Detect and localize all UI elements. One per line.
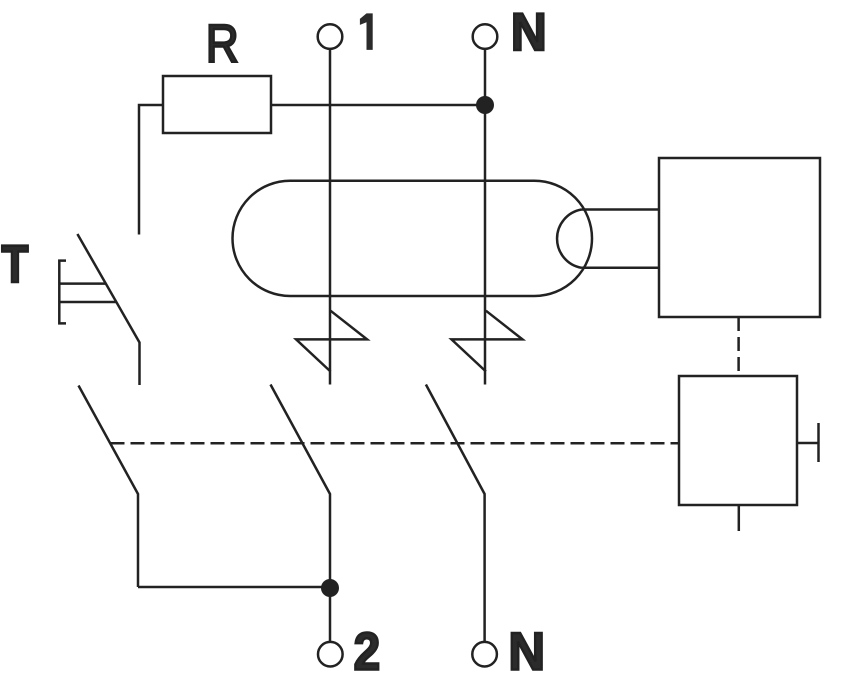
svg-text:T: T bbox=[1, 235, 28, 294]
test button contact blade bbox=[77, 234, 139, 385]
test button lower link bbox=[59, 301, 116, 304]
trip coil bottom stub bbox=[738, 505, 741, 531]
terminal 2 circle bbox=[318, 642, 343, 667]
svg-text:2: 2 bbox=[354, 621, 381, 681]
trip arrow on line N bbox=[452, 311, 523, 372]
sensing coil arc bbox=[557, 210, 581, 268]
terminal N bottom circle bbox=[472, 642, 497, 667]
junction dot on 2 bbox=[321, 579, 339, 597]
pole N contact blade bbox=[426, 385, 485, 642]
trip arrow on line 1 bbox=[296, 311, 367, 372]
svg-text:R: R bbox=[206, 14, 239, 73]
terminal 1 circle bbox=[318, 24, 343, 49]
relay box bbox=[659, 158, 820, 317]
wire coil to relay bottom bbox=[582, 267, 660, 270]
wire resistor right to node N bbox=[271, 104, 485, 107]
svg-text:N: N bbox=[511, 3, 547, 62]
manual operator stem bbox=[797, 442, 818, 445]
wire line 1 vertical bbox=[329, 49, 332, 385]
test button upper link bbox=[59, 282, 106, 285]
resistor R bbox=[163, 76, 271, 133]
svg-text:N: N bbox=[508, 623, 545, 682]
junction dot on N bbox=[476, 96, 494, 114]
wire test path to node 2 bbox=[138, 586, 330, 589]
label 1 bbox=[360, 13, 373, 50]
mechanical linkage dashed vertical bbox=[737, 317, 740, 376]
pole T contact blade bbox=[79, 386, 139, 588]
manual operator bar bbox=[817, 423, 820, 462]
wire coil to relay top bbox=[582, 208, 660, 211]
current transformer core bbox=[233, 181, 593, 296]
test button plunger bracket bbox=[59, 261, 66, 324]
trip coil box bbox=[679, 376, 797, 505]
terminal N top circle bbox=[473, 24, 498, 49]
pole 1 contact blade bbox=[271, 385, 331, 642]
wire resistor left to test button bbox=[139, 105, 163, 235]
mechanical linkage dashed horizontal bbox=[111, 442, 680, 445]
wire line N vertical bbox=[484, 49, 487, 385]
